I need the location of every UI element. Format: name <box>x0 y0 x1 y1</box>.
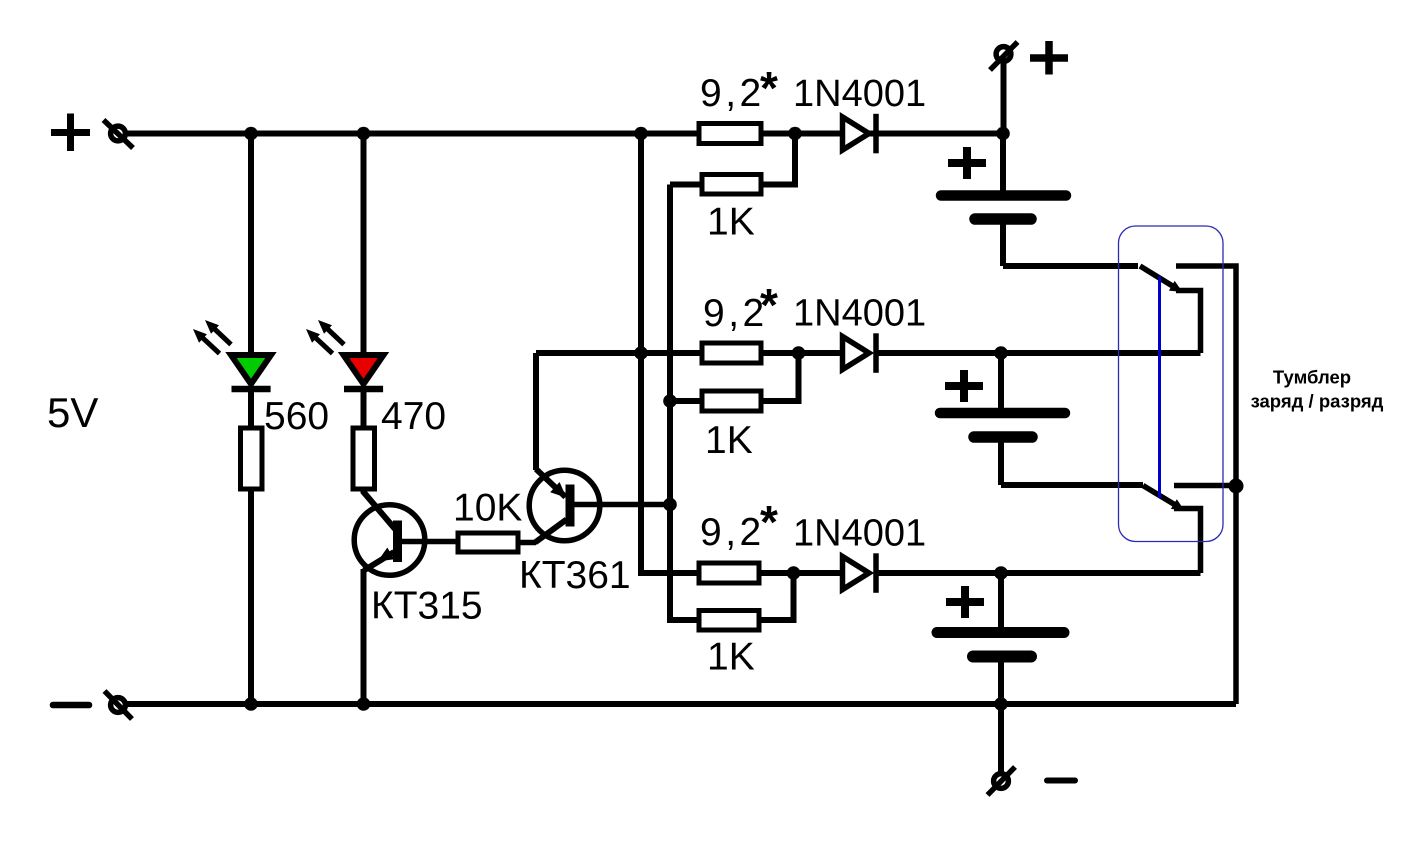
svg-text:Тумблер: Тумблер <box>1273 367 1351 388</box>
switch SA1 pole2 bracket <box>1174 509 1201 574</box>
switch SA1 pole1 arrowhead <box>1169 281 1183 292</box>
node battery2 top <box>994 346 1008 360</box>
switch SA1 pole1 contact and discharge bus <box>1176 266 1236 704</box>
label battery1 + <box>948 147 986 179</box>
wire R560 to bottom rail <box>248 489 254 704</box>
LED HL2 red <box>344 355 384 389</box>
svg-text:470: 470 <box>381 395 446 438</box>
LED HL1 light arrows <box>203 328 231 354</box>
svg-text:*: * <box>760 496 778 548</box>
resistor 9,2 row1 <box>699 124 761 144</box>
resistor 560 <box>241 428 263 489</box>
terminal X4 - input <box>105 691 133 719</box>
node bus B Q2 base <box>663 498 677 512</box>
svg-text:1N4001: 1N4001 <box>793 513 926 555</box>
svg-text:*: * <box>760 279 778 331</box>
node battery3 top <box>994 566 1008 580</box>
node bus B 1K2 <box>663 394 677 408</box>
wire battery3 to terminal X3 <box>998 704 1004 773</box>
wire R row3 to diode <box>759 570 840 576</box>
minus sign output <box>1047 778 1075 784</box>
diode VD1 1N4001 <box>843 114 877 154</box>
switch SA1 pole2 contact <box>1174 483 1238 489</box>
wire battery2 to switch pole2 <box>1001 482 1143 488</box>
node LED2 anode <box>357 127 371 141</box>
svg-text:заряд / разряд: заряд / разряд <box>1251 391 1384 412</box>
wire row2 <box>536 350 702 356</box>
wire battery1 to switch pole1 <box>1003 263 1138 269</box>
node bus A top <box>634 127 648 141</box>
svg-text:1K: 1K <box>707 636 755 679</box>
resistor 1K row3 <box>670 573 794 630</box>
plus sign output + <box>1030 41 1068 75</box>
LED HL1 green <box>231 355 271 389</box>
resistor 470 <box>353 428 375 489</box>
node Q1 emitter bottom <box>357 697 371 711</box>
node bus A row2 <box>634 346 648 360</box>
wire Q2 collector diagonal <box>535 520 567 543</box>
node R560 bottom <box>244 697 258 711</box>
wire LED2 cathode <box>361 389 367 428</box>
resistor 1K row2 <box>670 353 799 411</box>
svg-text:*: * <box>760 62 778 114</box>
resistor 1K row1 <box>670 134 795 195</box>
battery G3 <box>937 573 1064 704</box>
plus sign input + <box>51 114 90 152</box>
battery G2 <box>940 353 1065 485</box>
terminal X3 - output <box>988 767 1016 795</box>
node R1k3 tap <box>787 566 801 580</box>
wire battery3 top to switch bracket <box>1001 570 1201 576</box>
transistor Q1 KT315 <box>354 505 458 576</box>
wire bus A <box>641 134 699 574</box>
svg-text:1N4001: 1N4001 <box>793 73 926 115</box>
wire top rail <box>125 131 1003 137</box>
svg-text:9,2: 9,2 <box>700 72 765 115</box>
wire 10K to Q2 collector <box>518 540 536 546</box>
wire LED1 cathode <box>248 389 254 428</box>
transistor Q2 KT361 <box>529 469 670 541</box>
svg-text:560: 560 <box>264 395 329 438</box>
node battery3 bottom <box>994 697 1008 711</box>
wire R row2 to diode <box>761 350 840 356</box>
svg-text:9,2: 9,2 <box>703 292 768 335</box>
wire VD3 to battery3 <box>878 570 1001 576</box>
terminal X2 + output <box>990 42 1018 70</box>
node battery1 top <box>996 127 1010 141</box>
diode VD3 1N4001 <box>843 553 877 593</box>
switch SA1 pole2 arrowhead <box>1171 499 1185 510</box>
resistor 9,2 row2 <box>702 343 761 363</box>
wire Q2 emitter riser <box>533 353 539 470</box>
terminal X1 + input <box>104 120 134 148</box>
LED HL2 light arrows <box>316 328 344 354</box>
switch SA1 pole1 arm <box>1140 266 1175 288</box>
svg-text:10K: 10K <box>453 487 522 530</box>
node R1k2 tap <box>792 346 806 360</box>
wire LED2 anode <box>361 134 367 356</box>
switch SA1 mechanical link <box>1158 277 1161 499</box>
svg-text:1K: 1K <box>707 201 755 244</box>
svg-text:1N4001: 1N4001 <box>793 293 926 335</box>
wire X2 to rail <box>1001 61 1007 134</box>
wire bottom rail <box>125 701 1236 707</box>
minus sign input <box>53 702 89 709</box>
wire VD1 to battery1 <box>878 131 1003 137</box>
wire R row1 to diode <box>761 131 840 137</box>
switch SA1 enclosure box <box>1119 226 1224 542</box>
wire LED1 anode <box>248 134 254 356</box>
battery G1 <box>941 134 1066 267</box>
wire 470 to Q1 collector <box>364 489 396 529</box>
label battery2 + <box>945 370 983 402</box>
wire VD2 to battery2 <box>878 350 1001 356</box>
switch SA1 pole2 arm <box>1143 486 1177 507</box>
wire battery2 top to switch bracket <box>1001 350 1201 356</box>
node pole2 contact bus <box>1229 479 1244 494</box>
resistor 10K <box>458 533 518 552</box>
label battery3 + <box>946 586 984 618</box>
svg-text:9,2: 9,2 <box>700 511 765 554</box>
switch SA1 pole1 bracket <box>1176 291 1201 354</box>
svg-text:КТ315: КТ315 <box>371 585 483 628</box>
svg-text:1K: 1K <box>705 419 753 462</box>
wire bus B <box>670 185 699 621</box>
wire Q1 emitter to bottom rail <box>361 569 367 704</box>
svg-text:5V: 5V <box>47 389 98 436</box>
diode VD2 1N4001 <box>843 333 877 373</box>
resistor 9,2 row3 <box>699 563 759 583</box>
svg-text:КТ361: КТ361 <box>519 554 631 597</box>
node LED1 anode <box>244 127 258 141</box>
node R1k1 tap <box>788 127 802 141</box>
